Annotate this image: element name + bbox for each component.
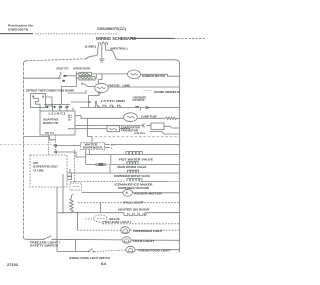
svg-text:FILL CUP: FILL CUP — [124, 201, 145, 204]
water dispenser box — [81, 143, 105, 150]
wire left feed to dispenser box with connector arrow — [57, 145, 81, 147]
junction on heater line — [77, 212, 78, 213]
drop to fresh food line — [75, 240, 77, 252]
wire defrost line from left bus — [24, 77, 58, 79]
vertical link rows 1-2 — [110, 155, 112, 165]
wire heater branch down-left — [62, 83, 77, 105]
freezer light lamp — [122, 237, 131, 243]
valve row 1 coil — [126, 152, 142, 155]
fuse marks on compressor line — [144, 90, 153, 92]
dispenser box bottom feed — [85, 150, 87, 165]
wire connector row line — [81, 107, 146, 109]
svg-text:AUGER MOTOR: AUGER MOTOR — [134, 192, 162, 195]
svg-text:DISPENSER ON DOOR: DISPENSER ON DOOR — [118, 187, 149, 190]
wire fuse line — [92, 125, 142, 127]
loop vertical right of box — [89, 150, 91, 155]
wire compressor branch down — [98, 74, 102, 84]
small component box — [70, 183, 82, 190]
svg-text:DEFROST TIMER CONNECTIONS SH: DEFROST TIMER CONNECTIONS SHOWN — [26, 91, 74, 93]
wire left bus corner — [24, 61, 27, 64]
svg-text:SAFETY SWITCH: SAFETY SWITCH — [30, 244, 58, 247]
valve ladder row 0 line — [114, 143, 180, 145]
svg-text:(A) (C): (A) (C) — [45, 131, 54, 134]
svg-text:HTR: HTR — [33, 162, 38, 165]
dashed vertical dispenser feed — [74, 150, 76, 184]
ice level dashed row — [102, 223, 180, 225]
heater square wave — [124, 213, 146, 216]
svg-text:GSS25WGTI(CC): GSS25WGTI(CC) — [97, 27, 126, 31]
wire right bus top corner — [176, 60, 180, 64]
svg-text:PWR FUSE: PWR FUSE — [109, 84, 120, 87]
relay arrow left of compressor — [81, 82, 84, 85]
wire thermostat to heater junction — [66, 75, 76, 77]
svg-text:DD: DD — [68, 120, 72, 122]
junction blob on connector row — [135, 106, 139, 108]
heater top hook to fill cup dashes — [72, 195, 74, 197]
fresh food switch — [88, 251, 90, 253]
overload small circle at compressor bottom — [98, 92, 100, 94]
connector on fuse line — [143, 124, 145, 127]
auger motor line — [82, 191, 180, 194]
ADC right stubs — [75, 116, 92, 126]
ADC top stubs — [53, 105, 74, 112]
wire fuse box to bus — [164, 126, 180, 128]
svg-text:DEFROST HEATER: DEFROST HEATER — [73, 67, 90, 70]
freezer light line — [26, 238, 43, 240]
mullion heater vertical zigzag — [70, 196, 74, 213]
wire LINE side down-left to left bus — [92, 50, 98, 56]
power plug prong NEUTRAL — [105, 43, 107, 48]
connector glyphs — [96, 105, 121, 107]
valve row 2 coil — [127, 162, 138, 165]
svg-text:(NEUTRAL): (NEUTRAL) — [111, 46, 128, 50]
svg-text:DISPENSER: DISPENSER — [83, 147, 102, 150]
svg-text:3 AMP FUSE: 3 AMP FUSE — [141, 115, 157, 118]
power plug prong GROUND — [102, 42, 104, 47]
note stubs continue — [57, 192, 63, 252]
note box bottom stubs — [57, 174, 63, 192]
defrost thermostat symbol — [58, 77, 61, 79]
ADC bottom stubs — [49, 135, 56, 155]
ADC bottom stub continues — [55, 139, 57, 152]
freezer light switch — [43, 239, 44, 240]
valve row 3 coil — [128, 170, 139, 173]
fresh food lamp — [126, 246, 135, 253]
wire left bus bottom corner to freezer light line — [24, 237, 27, 239]
wire dashed LINE horizontal run — [86, 56, 92, 58]
svg-text:GWG09278: GWG09278 — [8, 28, 28, 32]
ground symbol — [99, 59, 104, 62]
vertical feed to dispenser light — [77, 213, 79, 231]
valve row 3 line — [70, 165, 180, 174]
valve row 1 line — [86, 154, 180, 156]
wire run with right arrow — [71, 101, 89, 103]
valve row 2 line with connector — [86, 164, 96, 166]
left bus vertical dashed — [23, 64, 25, 238]
wire main run to damper motor — [96, 73, 127, 75]
svg-text:(LINE): (LINE) — [85, 45, 96, 49]
svg-text:DEFROST CTRL: DEFROST CTRL — [43, 121, 59, 125]
svg-text:FRZR LIGHT: FRZR LIGHT — [133, 240, 156, 243]
condenser fan circle — [124, 113, 138, 122]
svg-text:IS OPERATED ONLY: IS OPERATED ONLY — [33, 166, 58, 169]
defrost heater 2 box — [79, 77, 95, 80]
wire damper to right bus with jog — [141, 74, 180, 76]
boundary dashed line cabinet/doors — [95, 136, 179, 138]
timer contacts — [32, 95, 34, 97]
right bus vertical — [179, 64, 181, 253]
wire heater output to damper line — [94, 74, 97, 78]
dispenser light lamp — [121, 227, 130, 234]
defrost heater 1 box — [79, 72, 92, 75]
svg-text:FAN MOTOR: FAN MOTOR — [133, 99, 145, 102]
wire NEUTRAL side down-right — [105, 48, 176, 60]
wire compressor down to connector row — [89, 94, 100, 108]
power plug prong LINE — [98, 43, 101, 50]
wire compressor output to bus — [108, 86, 179, 88]
auger motor circle — [123, 189, 133, 196]
heater feed vertical — [75, 72, 77, 83]
wire top feed joining stubs — [44, 104, 70, 106]
fuse box — [151, 123, 164, 130]
stub from connector row down — [140, 108, 142, 111]
svg-text:( ICE LEVEL LIGHT ): ( ICE LEVEL LIGHT ) — [103, 221, 131, 224]
svg-text:DAMPER MOTOR: DAMPER MOTOR — [142, 74, 165, 78]
wire ground prong down — [101, 48, 103, 60]
svg-text:NO: NO — [111, 145, 115, 147]
left bus stubs — [24, 137, 56, 140]
vertical feed to dispenser — [88, 118, 93, 142]
svg-text:DISPENSER WATER VALVE: DISPENSER WATER VALVE — [114, 175, 150, 178]
wire timer loop right — [46, 97, 53, 106]
heater on door line — [57, 212, 124, 214]
ice maker dashed ellipse — [94, 215, 108, 222]
svg-text:WIRING SCHEMATIC: WIRING SCHEMATIC — [96, 36, 137, 41]
wire evap line step to bus — [150, 132, 180, 135]
valve row 4 line dashed left — [70, 181, 126, 183]
svg-text:DEFROST T'STAT: DEFROST T'STAT — [57, 68, 69, 71]
svg-text:ADAPTIVE: ADAPTIVE — [43, 118, 59, 122]
svg-text:(SOME MODELS): (SOME MODELS) — [154, 91, 180, 94]
adaptive defrost control box — [40, 111, 75, 135]
stray rule segment top right — [131, 37, 174, 39]
arrow on line — [146, 106, 150, 109]
header separator dashed line — [0, 33, 33, 35]
dispenser stubs NO C — [105, 144, 111, 147]
wire step feed lower — [57, 152, 86, 157]
note box dashed — [30, 155, 67, 187]
svg-text:(FRESH FOOD) LIGHT SWITCH: (FRESH FOOD) LIGHT SWITCH — [69, 257, 110, 260]
wire relay run left — [68, 90, 87, 93]
svg-text:C: C — [111, 148, 113, 150]
svg-text:MAIN WATER VALVE: MAIN WATER VALVE — [118, 166, 147, 169]
connector pair — [95, 101, 97, 104]
fill cup row dashed — [78, 202, 180, 204]
compressor motor circle — [95, 83, 109, 92]
svg-text:27103: 27103 — [7, 262, 19, 267]
svg-text:DISPENSER LIGHT: DISPENSER LIGHT — [134, 230, 164, 233]
svg-text:FAN MOTOR: FAN MOTOR — [121, 129, 138, 132]
wire condenser fan line with drain heater zigzag to bus — [81, 116, 166, 119]
note box right tabs — [67, 173, 72, 180]
svg-text:64: 64 — [101, 262, 106, 266]
svg-text:L5 FTC RED: L5 FTC RED — [101, 101, 126, 103]
svg-text:HEATER ON DOOR: HEATER ON DOOR — [118, 208, 149, 211]
evap fan small box — [107, 126, 120, 132]
svg-text:(SOME MDLS): (SOME MDLS) — [134, 133, 145, 135]
defrost timer box — [31, 94, 46, 108]
fresh food light line — [57, 251, 88, 253]
timer switch arm meander — [33, 97, 43, 108]
svg-text:LINK: LINK — [123, 84, 131, 87]
damper motor circle — [128, 70, 141, 79]
valve row 4 coil — [127, 179, 142, 182]
svg-text:AT A MIN.: AT A MIN. — [33, 169, 44, 172]
wire timer bottom stub — [39, 108, 41, 112]
svg-text:FRESH FOOD LIGHT: FRESH FOOD LIGHT — [139, 249, 172, 252]
label some models faint — [81, 105, 180, 122]
svg-text:HOT WATER VALVE: HOT WATER VALVE — [119, 159, 153, 162]
svg-text:EVAPORATOR: EVAPORATOR — [121, 127, 140, 130]
svg-text:L1 L6 C1: L1 L6 C1 — [49, 114, 67, 116]
vertical fill cup to heater line — [100, 203, 102, 213]
